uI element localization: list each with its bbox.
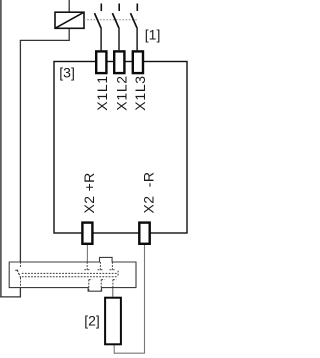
svg-text:[2]: [2] [84,313,100,329]
wire X2 -R down right side [144,245,146,353]
contact K1.1 fixed stub [100,4,102,12]
svg-text:[3]: [3] [59,64,75,80]
contactor coil K1 [55,12,84,28]
thermal contact seat tick dashed [15,269,18,271]
contact K1.1 blade [95,13,101,28]
wire thermal contact bottom lead [19,288,21,298]
contact K1.2 fixed stub [118,4,120,12]
thermal contact lower lead dashed [20,278,22,288]
terminal X1L3 [133,51,143,73]
wire left supply vertical [0,0,2,298]
internal wiring middle column dashed [98,262,105,291]
internal wiring rows right u-turn dashed [117,271,119,277]
terminal X2 -R [139,223,149,244]
wire coil return vertical x=20.4 [19,40,21,262]
wire horizontal y=40.4 coil to return [20,39,69,41]
wire coil bottom lead [68,28,70,41]
wire resistor R bottom lead [113,345,115,354]
internal wiring dashed row 1 [22,272,118,274]
svg-text:X1L3: X1L3 [132,75,148,111]
wire coil top lead [68,0,70,12]
svg-text:X1L2: X1L2 [113,75,129,111]
wire resistor R top lead [112,288,114,297]
wire bottom-left horizontal to thermal contact [0,296,21,298]
wire contact K1.1 to terminal [100,28,102,51]
svg-text:[1]: [1] [145,26,161,42]
svg-text:X1L1: X1L1 [94,75,110,111]
thermal contact upper lead dashed [20,262,22,268]
drive unit box [3] [54,62,187,234]
contact K1.3 blade [131,13,137,28]
contact K1.3 fixed stub [136,4,138,12]
svg-text:X2 +R: X2 +R [81,172,97,213]
svg-text:X2 -R: X2 -R [141,172,157,214]
mechanical linkage dashed line [84,19,137,21]
internal wiring right column dashed [110,262,117,288]
terminal X1L1 [96,51,106,73]
brake resistor R element [2] [105,298,121,345]
terminal X2 +R [82,223,92,244]
terminal X1L2 [114,51,124,73]
thermal contact blade dashed [17,270,21,278]
wire contact K1.2 to terminal [118,28,120,51]
contact K1.2 blade [112,13,118,28]
wire X2 +R down to resistor housing [86,245,88,262]
internal wiring +R entry column dashed [84,262,92,291]
wire contact K1.3 to terminal [136,28,138,51]
resistor housing outline with cable glands [9,257,136,291]
wire bottom horizontal to resistor R [114,352,145,354]
internal wiring dashed row 2 [22,276,118,278]
